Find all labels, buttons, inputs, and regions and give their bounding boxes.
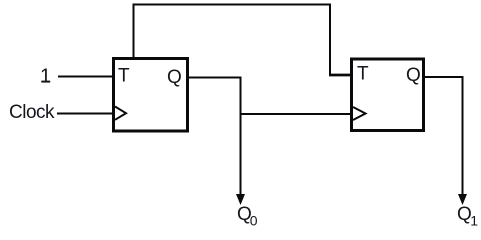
svg-text:T: T (118, 66, 130, 87)
svg-text:T: T (357, 64, 369, 85)
svg-text:Q1: Q1 (457, 204, 478, 229)
svg-text:Clock: Clock (9, 102, 55, 123)
svg-text:Q: Q (406, 65, 421, 86)
svg-text:1: 1 (40, 66, 51, 88)
svg-text:Q: Q (167, 67, 182, 88)
svg-text:Q0: Q0 (237, 204, 258, 229)
